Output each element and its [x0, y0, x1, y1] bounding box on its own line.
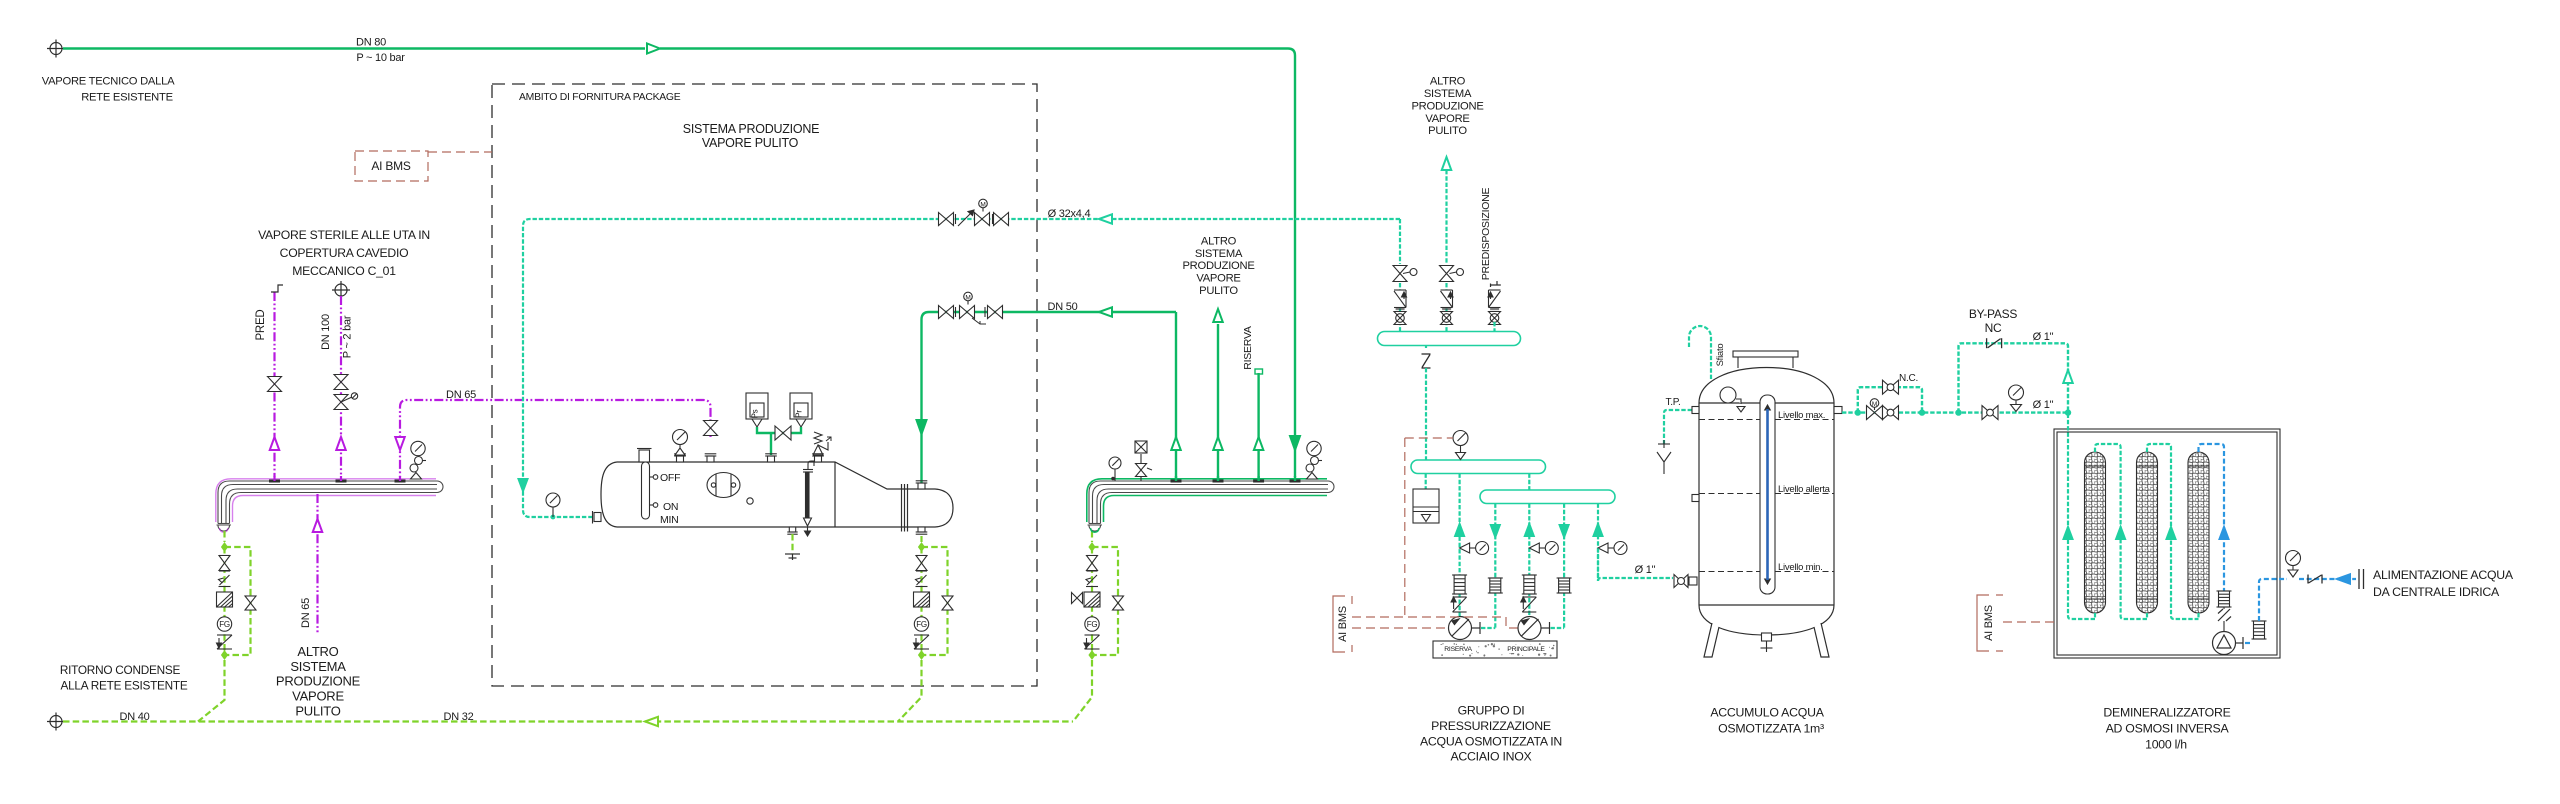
svg-text:Ø 32x4,4: Ø 32x4,4 — [1048, 208, 1091, 220]
pressure gauge on vessel — [674, 454, 686, 462]
svg-text:OSMOTIZZATA 1m³: OSMOTIZZATA 1m³ — [1718, 722, 1824, 736]
level instrument on vessel — [637, 449, 658, 520]
DN50 valve station — [939, 306, 954, 319]
flow arrow feedwater down — [519, 479, 528, 491]
check valve x=1092 — [1086, 575, 1098, 587]
closed valve above pump — [2218, 609, 2231, 621]
svg-text:SISTEMA: SISTEMA — [290, 659, 346, 674]
membrane column 2 — [2137, 452, 2158, 613]
clean steam outlet nozzle + valve (magenta drop) — [705, 454, 717, 462]
tank thermometer — [1720, 387, 1736, 403]
vent sfiato (teal curl) — [1689, 326, 1711, 379]
pressure reducing valve DN100 — [334, 395, 348, 410]
wire pump suction from city (blue) — [2245, 642, 2251, 644]
svg-text:ACCUMULO ACQUA: ACCUMULO ACQUA — [1710, 706, 1824, 720]
svg-text:FG: FG — [916, 620, 927, 629]
svg-text:VAPORE: VAPORE — [1425, 113, 1469, 125]
isolation valve x=921.5 — [916, 555, 927, 557]
FG sight glass x=1092 — [1085, 617, 1099, 631]
gauge on product line — [2009, 385, 2024, 412]
wire risers manifold 2 (green) — [1175, 312, 1177, 478]
svg-text:DEMINERALIZZATORE: DEMINERALIZZATORE — [2103, 706, 2230, 720]
membrane column 1 — [2085, 452, 2106, 613]
svg-text:ALTRO: ALTRO — [1201, 236, 1237, 248]
exchanger steam nozzle — [916, 481, 928, 489]
tank inlet valve — [1674, 575, 1688, 588]
trap group under manifold 2 — [1091, 531, 1093, 542]
svg-text:RISERVA: RISERVA — [1242, 326, 1254, 370]
junction node x=921.5 top — [918, 542, 925, 552]
wire product line tank-demi (teal) — [1842, 411, 2069, 413]
isolation valve x=224.5 — [219, 555, 230, 557]
cap RISERVA stub — [1255, 369, 1263, 374]
riser 3 predisposizione stack — [1491, 281, 1501, 287]
wire BMS link to package — [428, 151, 492, 153]
feedwater valve station — [939, 213, 954, 226]
flow arrows serpentine — [2064, 527, 2073, 539]
safety valve on vessel — [812, 454, 824, 462]
junction node x=1092 bottom — [1088, 650, 1095, 660]
package boundary box (dashed) — [492, 84, 1037, 686]
ball valve on product line — [1883, 406, 1899, 420]
svg-text:RETE ESISTENTE: RETE ESISTENTE — [81, 92, 173, 104]
NC closed valve on bypass — [1987, 338, 2002, 348]
wire condensate return header DN40/DN32 — [63, 720, 1073, 722]
discharge manifold capsule 2 — [1411, 460, 1546, 474]
svg-text:N.C.: N.C. — [1899, 373, 1918, 384]
flow arrow DN50 west — [1099, 307, 1112, 317]
Z break on city line — [2308, 575, 2322, 584]
tank manway top — [1733, 351, 1798, 368]
expansion tank — [1425, 474, 1427, 490]
flow arrow DN80 down into manifold 2 — [1290, 436, 1300, 450]
bypass valve x=224.5 — [245, 595, 256, 597]
svg-text:ACQUA OSMOTIZZATA IN: ACQUA OSMOTIZZATA IN — [1420, 734, 1562, 748]
Ps pressure switch — [746, 393, 768, 419]
wire capsule1 to capsule2 (teal) — [1425, 368, 1427, 460]
wire condensate drop x=1092 — [1091, 547, 1093, 655]
svg-text:FG: FG — [219, 620, 230, 629]
svg-text:PULITO: PULITO — [1428, 125, 1467, 137]
valve on product line right — [1982, 406, 1998, 420]
pump RISERVA — [1449, 617, 1481, 640]
Pr pressure transmitter — [790, 393, 812, 419]
svg-text:DN 80: DN 80 — [356, 37, 386, 49]
wire BMS to demineralizer — [2003, 621, 2054, 623]
svg-text:AI BMS: AI BMS — [1983, 605, 1995, 641]
wire pump1 discharge hookup — [1481, 627, 1495, 629]
filter x=921.5 — [914, 592, 930, 607]
svg-text:T.P.: T.P. — [1666, 397, 1681, 408]
suction manifold capsule 3 — [1480, 490, 1615, 504]
pump PRINCIPALE — [1518, 617, 1550, 640]
exchanger condensate nozzle — [916, 527, 928, 534]
flow arrow city water west — [2337, 574, 2350, 584]
svg-text:GRUPPO DI: GRUPPO DI — [1458, 704, 1525, 718]
svg-text:DN 40: DN 40 — [120, 711, 150, 723]
wire BMS to pumps — [1352, 617, 1518, 628]
pressure gauge on manifold 1 — [410, 441, 426, 479]
svg-text:VAPORE TECNICO DALLA: VAPORE TECNICO DALLA — [42, 76, 175, 88]
svg-text:ACCIAIO INOX: ACCIAIO INOX — [1450, 750, 1531, 764]
svg-text:OFF: OFF — [660, 472, 680, 484]
feed pump demineralizer — [2213, 632, 2244, 655]
small gauge on manifold 2 left — [1114, 469, 1116, 481]
wire BMS to gauge — [1405, 437, 1453, 439]
flow arrow riser 2 up — [1442, 157, 1452, 170]
manifold 1 sterile steam (pipe) — [217, 481, 444, 531]
svg-text:ALLA RETE ESISTENTE: ALLA RETE ESISTENTE — [60, 679, 187, 693]
svg-text:P ~ 2 bar: P ~ 2 bar — [342, 315, 354, 358]
vent valve + blind on manifold 2 — [1140, 454, 1142, 481]
AI BMS box 1 — [355, 151, 428, 181]
BY-PASS NC loop — [1959, 343, 2069, 412]
isolation valve x=1092 — [1087, 555, 1098, 557]
svg-text:Ps: Ps — [751, 409, 760, 418]
AI BMS box 3 — [1977, 595, 2003, 651]
FG sight glass x=224.5 — [217, 617, 231, 631]
svg-text:ALIMENTAZIONE ACQUA: ALIMENTAZIONE ACQUA — [2373, 568, 2514, 582]
FG sight glass x=921.5 — [914, 617, 928, 631]
svg-text:SISTEMA: SISTEMA — [1424, 88, 1472, 100]
svg-text:Ø 1": Ø 1" — [2033, 331, 2054, 343]
flow arrows pump lines — [1455, 524, 1464, 536]
wire pump2 discharge hookup — [1551, 627, 1565, 629]
tank side nozzles — [1689, 407, 1842, 586]
flow arrows on manifold 2 risers — [1171, 437, 1181, 450]
wire PRED riser (magenta) — [273, 292, 275, 477]
steam trap x=1092 — [1084, 635, 1100, 649]
svg-text:ALTRO: ALTRO — [1430, 76, 1466, 88]
svg-text:AI BMS: AI BMS — [1337, 606, 1349, 642]
Z break under capsule 1 — [1425, 346, 1427, 349]
wire DN 65 clean steam header (magenta) — [400, 400, 711, 477]
tank legs — [1704, 623, 1829, 657]
svg-text:PRINCIPALE: PRINCIPALE — [1507, 646, 1545, 653]
svg-text:FG: FG — [1087, 620, 1098, 629]
wire riser 2 to other system (teal) — [1445, 170, 1447, 264]
svg-text:AD OSMOSI INVERSA: AD OSMOSI INVERSA — [2106, 722, 2230, 736]
manifold 2 technical steam (pipe) — [1088, 481, 1335, 531]
wire DN 80 technical steam main (green solid) — [63, 47, 645, 49]
svg-text:DA CENTRALE IDRICA: DA CENTRALE IDRICA — [2373, 585, 2500, 599]
check+gauge taps on discharge lines — [1460, 542, 1489, 555]
gauge on capsule 2 — [1453, 431, 1468, 460]
svg-text:PRED: PRED — [255, 310, 267, 341]
concrete base — [1433, 641, 1557, 658]
svg-text:RISERVA: RISERVA — [1444, 646, 1472, 653]
svg-text:BY-PASS: BY-PASS — [1969, 307, 2018, 321]
svg-text:COPERTURA CAVEDIO: COPERTURA CAVEDIO — [280, 246, 409, 260]
junction node x=224.5 top — [221, 542, 228, 552]
wire city water (blue) — [2299, 578, 2356, 580]
steam trap x=921.5 — [914, 635, 930, 649]
svg-text:DN 100: DN 100 — [320, 314, 332, 350]
drain valve left x=1092 — [1072, 597, 1083, 599]
svg-text:SISTEMA PRODUZIONE: SISTEMA PRODUZIONE — [683, 122, 820, 136]
valve on PRED riser — [268, 377, 282, 392]
wire DN 100 riser (magenta) — [340, 296, 342, 477]
terminal bars city water — [2359, 569, 2364, 589]
riser joints on manifold 1 — [269, 480, 280, 483]
wire feed to col3 (blue) — [2199, 444, 2225, 591]
riser 1 valve stack — [1393, 266, 1407, 282]
svg-text:M: M — [980, 202, 985, 209]
feedwater inlet nozzle left — [593, 511, 602, 524]
svg-text:Livello allerta: Livello allerta — [1778, 484, 1831, 495]
svg-text:ON: ON — [663, 501, 678, 513]
svg-text:RITORNO CONDENSE: RITORNO CONDENSE — [60, 663, 181, 677]
vessel: accumulation tank body — [1699, 368, 1834, 636]
wire riser 1 to feedwater line (teal) — [1399, 219, 1401, 264]
flow arrow branch up — [313, 519, 323, 532]
svg-text:DN 32: DN 32 — [444, 711, 474, 723]
bypass valve x=921.5 — [942, 595, 953, 597]
flow arrow PRED up — [270, 437, 280, 450]
svg-text:PRODUZIONE: PRODUZIONE — [276, 674, 361, 689]
wire col2 top to col3 — [2147, 444, 2199, 619]
pump connection lines (teal) — [1458, 474, 1460, 618]
svg-text:AMBITO DI FORNITURA PACKAGE: AMBITO DI FORNITURA PACKAGE — [519, 92, 681, 103]
check valve x=224.5 — [219, 575, 231, 587]
electric heater in vessel — [803, 461, 814, 536]
riser joints on manifold 2 — [1171, 480, 1182, 483]
wire branch DN65 to other system (magenta) — [316, 494, 318, 634]
svg-text:Ø 1": Ø 1" — [2033, 399, 2054, 411]
blowdown nozzle under vessel — [787, 527, 797, 534]
manhole sight glass on vessel — [707, 473, 740, 498]
wire col1 top to col2 — [2095, 444, 2147, 619]
T.P. tap on tank — [1664, 410, 1692, 444]
svg-text:DN 65: DN 65 — [300, 598, 312, 628]
junction node x=921.5 bottom — [918, 650, 925, 660]
flow arrow DN65 down into manifold — [395, 437, 405, 450]
filter x=224.5 — [217, 592, 233, 607]
wire suction from tank (teal) — [1598, 578, 1673, 581]
svg-text:AI BMS: AI BMS — [371, 159, 410, 173]
filter x=1092 — [1084, 592, 1100, 607]
discharge regulators above pumps — [1451, 597, 1467, 612]
svg-text:M: M — [965, 295, 970, 302]
svg-text:NC: NC — [1985, 321, 2002, 335]
svg-text:PULITO: PULITO — [295, 703, 340, 718]
level lines in tank — [1699, 419, 1834, 421]
trap group under exchanger — [920, 536, 922, 542]
svg-text:Sfiato: Sfiato — [1715, 344, 1726, 367]
svg-text:VAPORE: VAPORE — [1196, 273, 1240, 285]
svg-text:M: M — [1872, 401, 1877, 408]
vessel: clean steam generator body — [601, 462, 953, 532]
svg-text:MECCANICO C_01: MECCANICO C_01 — [292, 264, 396, 278]
pressure gauge on manifold 2 right — [1306, 441, 1322, 479]
steam trap x=224.5 — [217, 635, 233, 649]
svg-text:VAPORE STERILE ALLE UTA IN: VAPORE STERILE ALLE UTA IN — [258, 228, 430, 242]
flow arrow bypass up — [2063, 370, 2073, 383]
bypass line around trap x=1092 — [1092, 547, 1118, 655]
valve on DN100 riser — [334, 375, 348, 390]
bypass line around trap x=921.5 — [922, 547, 948, 655]
svg-text:1000 l/h: 1000 l/h — [2145, 738, 2187, 752]
svg-text:PREDISPOSIZIONE: PREDISPOSIZIONE — [1480, 188, 1492, 281]
wire feedwater line (teal dotted) from pump station — [523, 219, 1400, 517]
svg-text:PRESSURIZZAZIONE: PRESSURIZZAZIONE — [1431, 719, 1551, 733]
AI BMS box 2 — [1333, 596, 1352, 652]
node: technical steam source terminal — [47, 40, 65, 58]
svg-text:Ø 1": Ø 1" — [1635, 564, 1656, 576]
wire condensate drop x=921.5 — [920, 547, 922, 655]
gauge on city water line — [2286, 551, 2301, 578]
junction + small gauge on feedwater at vessel — [551, 515, 556, 520]
N.C. bypass loop — [1858, 387, 1922, 412]
svg-text:MIN: MIN — [660, 514, 679, 526]
wire capsule2-capsule3 connection — [1528, 474, 1530, 491]
demineralizer enclosure — [2054, 429, 2280, 658]
svg-text:PULITO: PULITO — [1199, 285, 1238, 297]
membrane column 3 — [2188, 452, 2209, 613]
tank drain bottom — [1761, 633, 1773, 652]
svg-text:VAPORE: VAPORE — [292, 689, 344, 704]
svg-text:Livello max.: Livello max. — [1778, 410, 1825, 421]
N.C. valve on loop — [1883, 380, 1899, 394]
flow arrow DN50 down — [917, 420, 927, 434]
node: DN100 terminal to UTA — [332, 281, 350, 299]
flow arrow DN100 up — [336, 437, 346, 450]
svg-text:Livello min.: Livello min. — [1778, 562, 1823, 573]
flex connectors on pump lines — [1452, 575, 1467, 594]
junction dots product line — [1855, 409, 1861, 415]
flow arrow DN 80 east — [647, 44, 660, 54]
svg-text:DN 65: DN 65 — [446, 389, 476, 401]
svg-text:Pr: Pr — [795, 410, 804, 418]
wire green content line in manifold 2 — [1104, 496, 1328, 523]
level gauge tube on tank — [1760, 395, 1775, 594]
wire from manifold cap to trap — [223, 531, 225, 542]
flow arrow condensate west — [645, 717, 658, 727]
riser 2 valve stack — [1440, 266, 1454, 282]
bypass valve x=1092 — [1113, 595, 1124, 597]
svg-text:PRODUZIONE: PRODUZIONE — [1182, 260, 1254, 272]
bypass line around trap x=224.5 — [225, 547, 251, 655]
svg-text:ALTRO: ALTRO — [297, 644, 338, 659]
cap future connection PRED — [271, 285, 283, 292]
junction node x=224.5 bottom — [221, 650, 228, 660]
wire trap to condensate header — [198, 660, 225, 722]
suction/discharge manifold capsule 1 — [1378, 332, 1521, 346]
wire condensate drop x=224.5 — [223, 547, 225, 655]
flow arrow feed up — [2220, 527, 2229, 539]
svg-text:SISTEMA: SISTEMA — [1195, 248, 1243, 260]
node condensate terminal — [47, 713, 65, 731]
wire serpentine product (teal) col1 exit — [2068, 412, 2095, 619]
wire magenta content line in manifold 1 — [216, 479, 436, 532]
motorized valve on product line — [1867, 406, 1883, 420]
svg-text:PRODUZIONE: PRODUZIONE — [1411, 100, 1483, 112]
flow arrow feedwater west — [1099, 214, 1112, 224]
svg-text:VAPORE PULITO: VAPORE PULITO — [702, 136, 799, 150]
junction node x=1092 top — [1088, 542, 1095, 552]
instrument tee (green) on vessel top — [752, 419, 806, 427]
check valve x=921.5 — [916, 575, 928, 587]
wire DN 80 continuation to riser — [660, 49, 1295, 478]
svg-text:P ~ 10 bar: P ~ 10 bar — [356, 52, 405, 64]
wire DN 50 heating steam (green) — [922, 312, 1177, 486]
svg-text:DN 50: DN 50 — [1048, 301, 1078, 313]
feed coil above pump — [2217, 591, 2232, 607]
